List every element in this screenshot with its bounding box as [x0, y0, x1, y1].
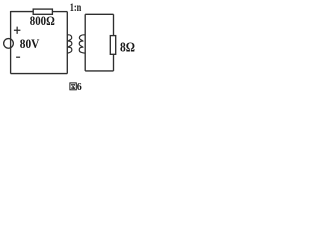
wire: right loop right vertical upper [113, 14, 115, 35]
wire: left loop left vertical [10, 11, 12, 74]
plus sign of source [14, 27, 21, 34]
wire: left loop top right segment [52, 11, 67, 13]
wire: transformer secondary vertical [84, 14, 86, 71]
wire: transformer primary vertical [66, 12, 68, 74]
wire: right loop top [85, 13, 113, 15]
resistor R1 800 ohm box [33, 9, 52, 14]
resistor R2 8 ohm box [110, 36, 115, 55]
svg-text:6: 6 [77, 82, 82, 93]
inductor L1 primary coil humps [67, 35, 72, 53]
minus sign of source [16, 56, 20, 58]
label figure 6 character tu [70, 83, 76, 90]
inductor L2 secondary coil humps [79, 35, 85, 53]
svg-text:1:n: 1:n [70, 0, 82, 14]
wire: right loop bottom [85, 70, 113, 72]
voltage source V1 circle [4, 39, 14, 49]
wire: left loop top left segment [11, 11, 34, 13]
svg-text:800Ω: 800Ω [30, 14, 55, 28]
wire: right loop right vertical lower [113, 54, 115, 71]
svg-text:80V: 80V [20, 37, 40, 51]
svg-text:8Ω: 8Ω [120, 41, 135, 56]
wire: left loop bottom [11, 73, 68, 75]
